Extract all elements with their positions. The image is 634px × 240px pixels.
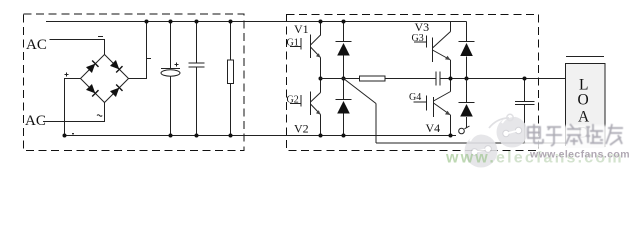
- electrolytic capacitor C1: [161, 68, 180, 70]
- bridge diode top-left: [86, 60, 99, 73]
- freewheel diode D2: [336, 99, 352, 101]
- freewheel diode D4 wire bottom: [466, 117, 468, 128]
- right leg emitter wire to midpoint: [450, 60, 452, 79]
- junction C1 top: [169, 20, 173, 24]
- terminal circle at D4 bottom: [459, 128, 465, 134]
- freewheel diode D4 wire top: [466, 79, 468, 103]
- svg-text:O: O: [578, 92, 589, 109]
- IGBT V3 collector diagonal: [433, 32, 451, 49]
- junction bridge-minus on bottom rail: [63, 134, 67, 138]
- svg-text:V4: V4: [426, 121, 441, 135]
- bleeder resistor wire top: [230, 22, 232, 61]
- freewheel diode D3: [459, 41, 475, 43]
- IGBT V4 collector diagonal: [434, 92, 451, 102]
- series capacitor: [435, 72, 437, 86]
- bleeder resistor: [228, 60, 234, 84]
- V2 collector wire from midpoint: [320, 79, 322, 93]
- junction left leg bottom: [319, 134, 323, 138]
- IGBT V4 body bar: [433, 97, 435, 117]
- watermark stamp backdrop: [524, 126, 630, 150]
- tank capacitor wire bottom: [524, 105, 526, 143]
- wire series resistor to series capacitor: [385, 78, 436, 80]
- rectifier unit dashed enclosure: [24, 14, 245, 151]
- inverter unit dashed enclosure: [287, 15, 539, 151]
- left leg emitter wire to midpoint: [320, 58, 322, 79]
- junction D1 top: [342, 20, 346, 24]
- return wire horizontal to load: [376, 142, 566, 144]
- filter capacitor C2 wire bottom: [196, 67, 198, 136]
- svg-text:V1: V1: [294, 22, 309, 36]
- return wire vertical: [375, 104, 377, 144]
- load block: [566, 63, 606, 148]
- wire bridge right vertex to top rail: [129, 22, 147, 79]
- IGBT V2 emitter diagonal with arrow: [311, 104, 321, 115]
- IGBT V1 body bar: [310, 35, 312, 59]
- polarity tick near top corner: [98, 36, 103, 38]
- junction C2 top: [195, 20, 199, 24]
- freewheel diode D2 wire bottom: [343, 114, 345, 136]
- plus mark of C1: [175, 63, 179, 67]
- right leg collector wire: [450, 22, 452, 32]
- IGBT V1 collector diagonal: [311, 35, 321, 45]
- IGBT V2 gate bar: [300, 95, 302, 107]
- series resistor: [360, 76, 386, 81]
- node DC- bottom rail: [64, 135, 457, 137]
- wire bridge left vertex to bottom rail: [65, 79, 81, 136]
- IGBT V3 gate bar: [426, 36, 428, 48]
- junction resistor bottom: [229, 134, 233, 138]
- bridge rectifier diamond wires: [81, 55, 129, 103]
- tank capacitor: [515, 101, 535, 103]
- wire AC top to bridge top vertex: [50, 40, 105, 55]
- filter capacitor C2: [189, 62, 205, 64]
- electrolytic capacitor C1 wire top: [170, 22, 172, 69]
- wire AC bottom to bridge bottom vertex: [43, 103, 105, 122]
- IGBT V2 collector diagonal: [311, 93, 321, 103]
- freewheel diode D3 wire bottom: [466, 57, 468, 79]
- freewheel diode D2 wire top: [343, 79, 345, 100]
- svg-text:AC: AC: [26, 37, 47, 53]
- freewheel diode D1 wire bottom: [343, 56, 345, 79]
- freewheel diode D4: [459, 102, 475, 104]
- stray speck: [72, 133, 74, 134]
- IGBT V3 emitter diagonal with arrow: [433, 50, 451, 60]
- junction C1 bottom: [169, 134, 173, 138]
- svg-text:V3: V3: [415, 20, 430, 34]
- return diagonal from midpoint: [344, 79, 377, 104]
- IGBT V4 emitter diagonal with arrow: [434, 103, 451, 115]
- wire series capacitor to right leg and load: [440, 78, 565, 80]
- freewheel diode D3 wire top: [466, 22, 468, 42]
- wire midpoint to series resistor: [321, 78, 360, 80]
- junction right leg bottom: [449, 134, 453, 138]
- IGBT V1 gate lead: [290, 46, 301, 48]
- svg-text:V2: V2: [294, 122, 309, 136]
- IGBT V2 body bar: [310, 92, 312, 116]
- junction left leg midpoint: [319, 77, 323, 81]
- freewheel diode D1 wire top: [343, 22, 345, 42]
- IGBT V1 gate bar: [300, 38, 302, 50]
- junction tank cap top: [523, 77, 527, 81]
- filter capacitor C2 wire top: [196, 22, 198, 64]
- bleeder resistor wire bottom: [230, 84, 232, 136]
- watermark logo balls: [465, 114, 528, 167]
- watermark chinese characters: [528, 124, 623, 146]
- V2 emitter wire to bottom rail: [320, 115, 322, 136]
- left leg collector wire: [320, 22, 322, 36]
- tilde mark near bottom vertex: [97, 115, 102, 117]
- bridge diode bottom-right: [110, 84, 123, 97]
- junction bridge-plus on top rail: [145, 20, 149, 24]
- junction right leg midpoint: [449, 77, 453, 81]
- IGBT V4 gate lead: [414, 101, 427, 103]
- tank capacitor wire top: [524, 79, 526, 102]
- IGBT V3 gate lead: [414, 41, 427, 43]
- bridge diode top-right: [110, 60, 123, 73]
- node DC+ top rail: [46, 21, 467, 23]
- tick near right riser: [147, 58, 151, 60]
- svg-text:www.elecfans.com: www.elecfans.com: [529, 149, 630, 161]
- junction D2 bottom: [342, 134, 346, 138]
- bridge diode bottom-left: [86, 84, 99, 97]
- IGBT V4 gate bar: [426, 96, 428, 111]
- junction D3 midpoint: [465, 77, 469, 81]
- IGBT V3 body bar: [432, 38, 434, 63]
- IGBT V1 emitter diagonal with arrow: [311, 47, 321, 58]
- junction resistor top: [229, 20, 233, 24]
- svg-text:G4: G4: [409, 92, 421, 103]
- polarity plus near left vertex: [65, 73, 69, 77]
- electrolytic capacitor C1 wire bottom: [170, 76, 172, 135]
- V4 collector wire from midpoint: [450, 79, 452, 92]
- svg-text:A: A: [578, 109, 590, 126]
- freewheel diode D1: [336, 41, 352, 43]
- junction left leg top: [319, 20, 323, 24]
- junction D-column midpoint: [342, 77, 346, 81]
- IGBT V2 gate lead: [290, 103, 301, 105]
- junction C2 bottom: [195, 134, 199, 138]
- svg-text:AC: AC: [25, 113, 46, 129]
- V4 emitter wire to bottom rail: [450, 115, 452, 136]
